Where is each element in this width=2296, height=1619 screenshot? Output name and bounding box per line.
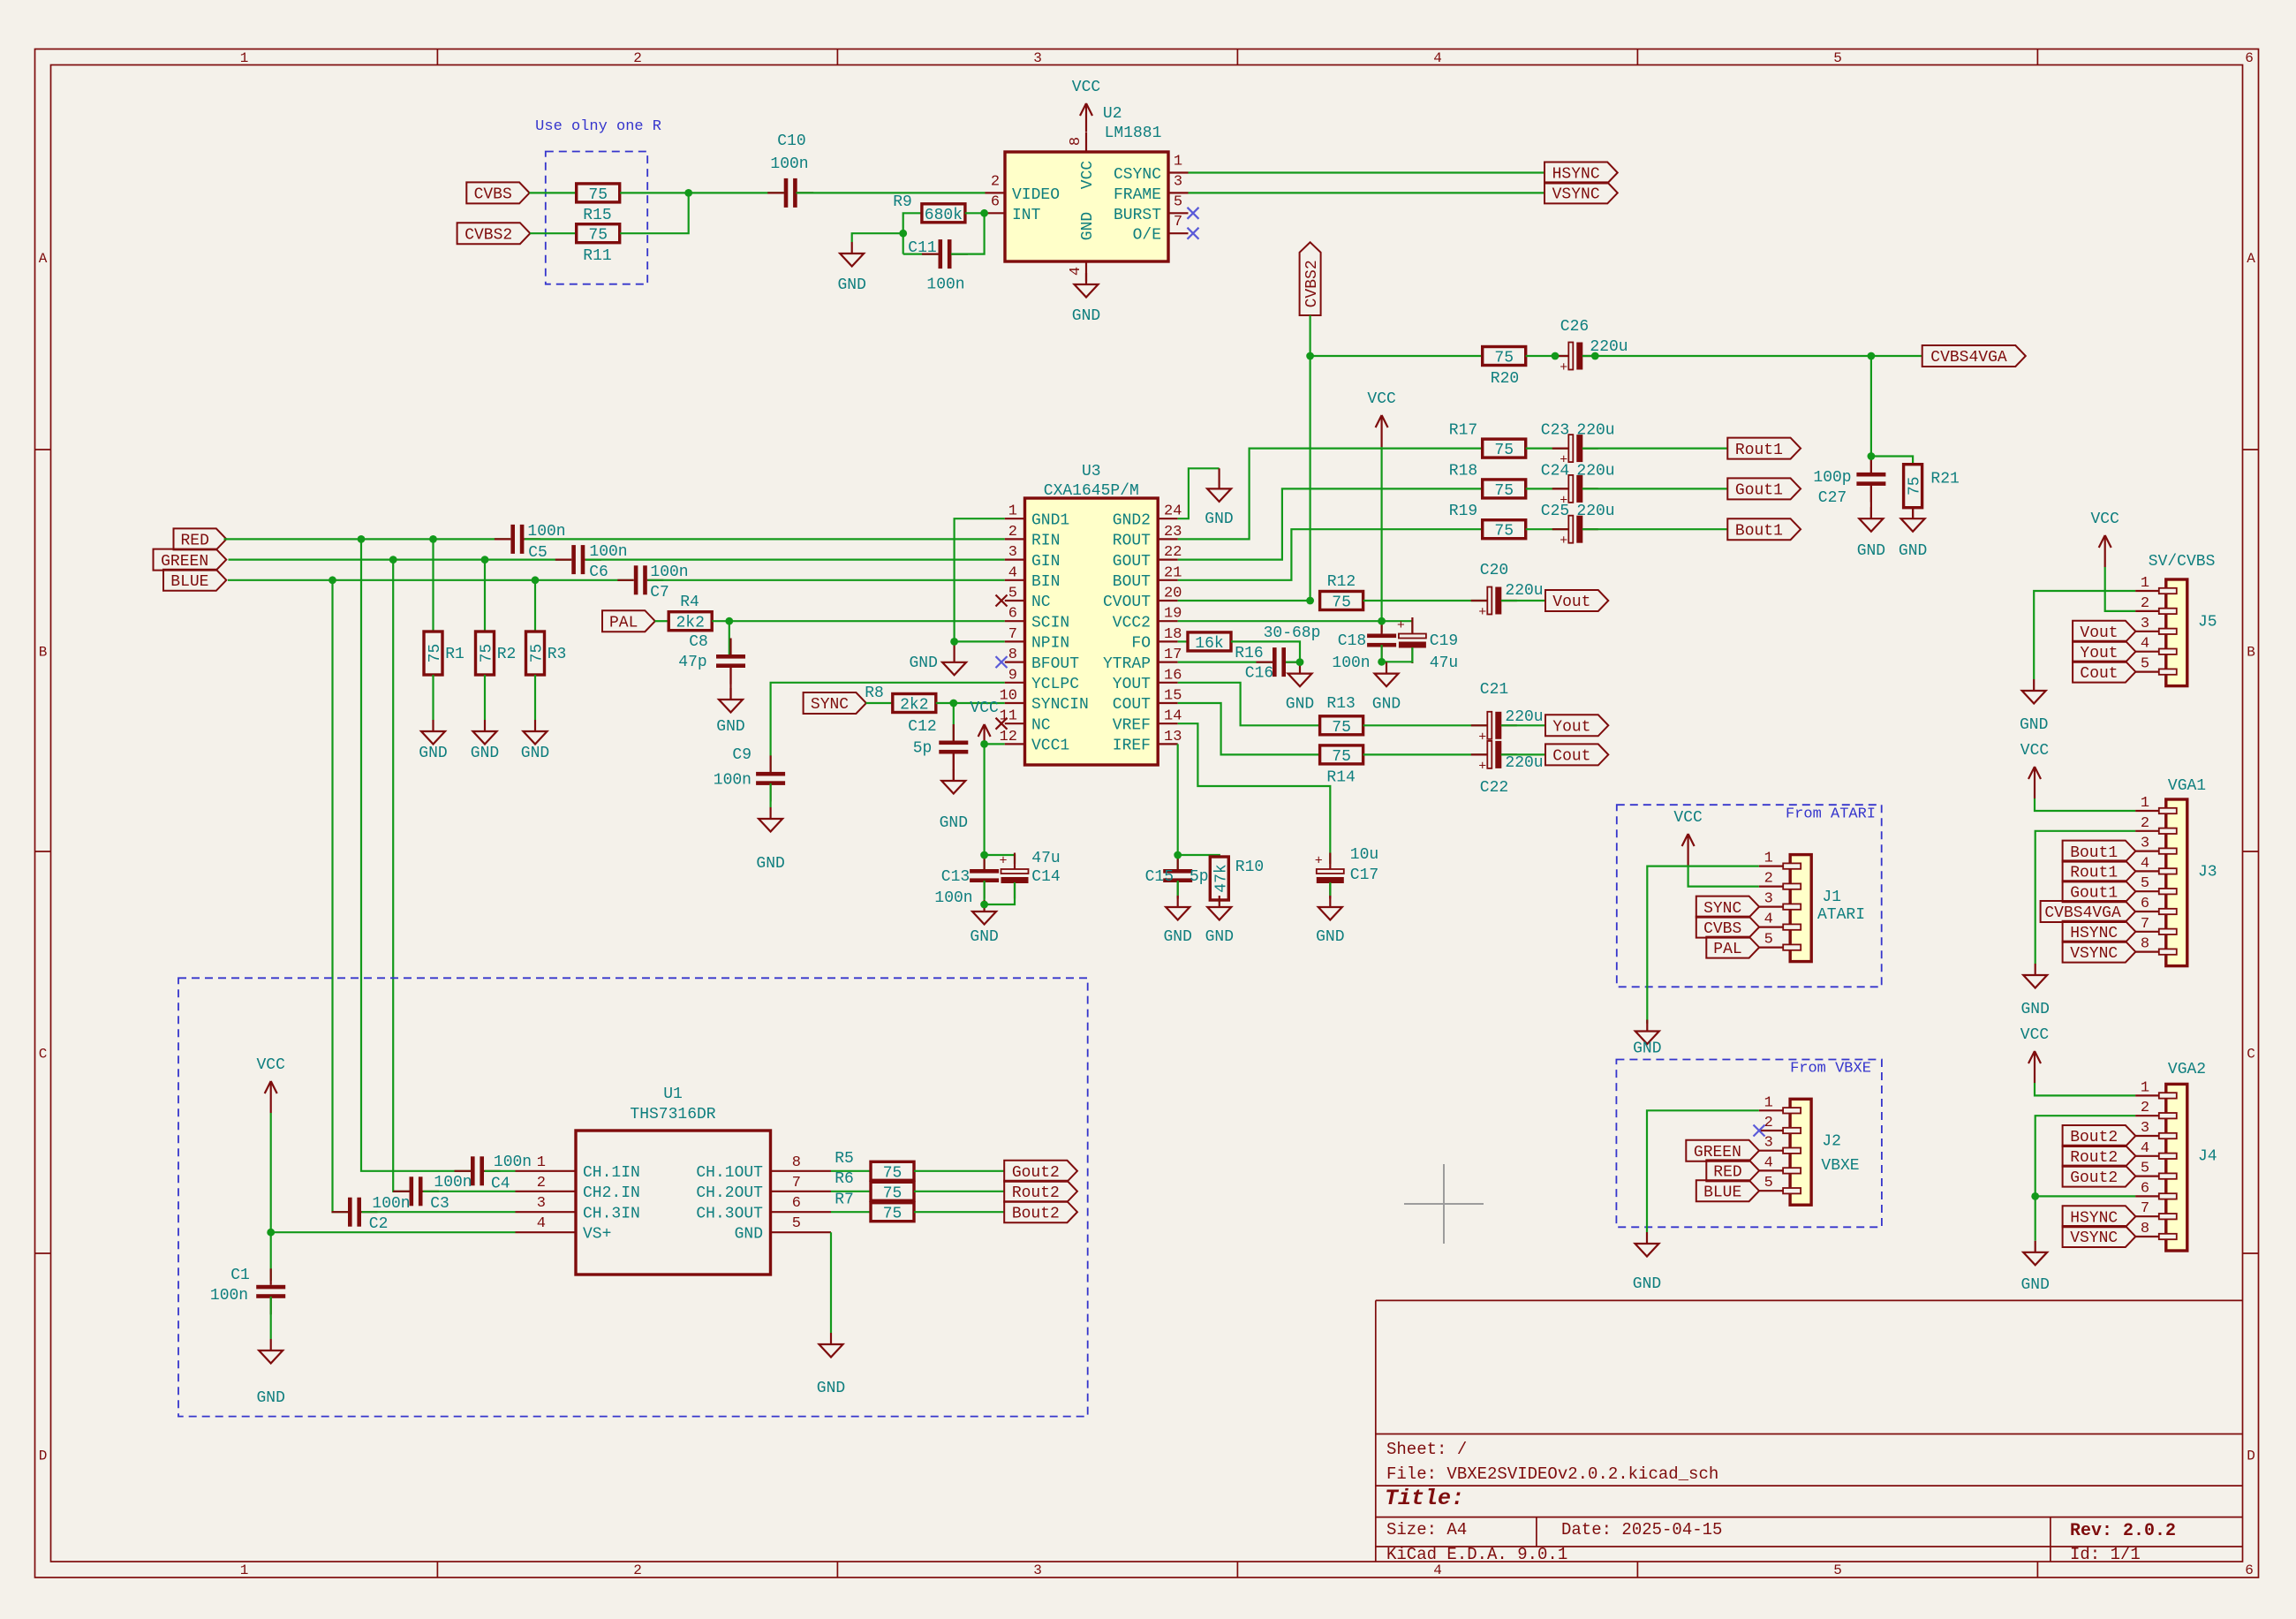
svg-text:Bout2: Bout2 [2070, 1129, 2118, 1146]
resistor R10 [1210, 857, 1264, 900]
polarized capacitor C23 [1541, 422, 1615, 468]
svg-text:LM1881: LM1881 [1105, 125, 1162, 142]
svg-text:1: 1 [2141, 575, 2149, 592]
global label HSYNC to J4 [2063, 1206, 2136, 1227]
svg-text:+: + [1315, 854, 1323, 869]
svg-text:C10: C10 [777, 132, 805, 150]
svg-text:Sheet: /: Sheet: / [1386, 1440, 1467, 1459]
svg-text:GND: GND [716, 718, 744, 736]
svg-text:24: 24 [1164, 503, 1182, 520]
svg-text:FO: FO [1131, 635, 1151, 653]
svg-text:CH2.IN: CH2.IN [583, 1184, 640, 1202]
wire GOUT riser [1178, 488, 1483, 559]
svg-text:9: 9 [1008, 667, 1017, 684]
svg-text:C2: C2 [369, 1215, 389, 1233]
U1 pin 8 CH.1OUT [696, 1154, 831, 1182]
junction C8 tap [725, 617, 733, 625]
resistor R7 [835, 1191, 914, 1222]
svg-text:20: 20 [1164, 586, 1182, 602]
global label BLUE [163, 570, 226, 591]
svg-text:6: 6 [2245, 50, 2254, 66]
svg-text:R1: R1 [445, 646, 464, 663]
dashed box around U1 section [178, 978, 1088, 1416]
global label CVBS to J1 [1696, 917, 1759, 938]
svg-text:1: 1 [1174, 154, 1182, 170]
wire R2 drop [484, 560, 486, 632]
U3 pin 20 CVOUT [1103, 586, 1182, 612]
U3 pin 2 RIN [1005, 524, 1061, 550]
ground R2 gnd [471, 720, 499, 762]
svg-text:GND: GND [1633, 1275, 1661, 1293]
global label Bout2 [1004, 1201, 1077, 1222]
capacitor C27 [1813, 456, 1885, 507]
svg-text:100n: 100n [434, 1174, 472, 1192]
ground C17 gnd [1316, 896, 1344, 946]
capacitor C15 [1145, 853, 1209, 899]
global label Cout [1545, 744, 1608, 765]
svg-text:Yout: Yout [1552, 719, 1590, 737]
svg-text:100n: 100n [770, 155, 808, 173]
svg-text:6: 6 [2141, 896, 2149, 912]
U3 pin 3 GIN [1005, 544, 1061, 571]
wire R2 to gnd [484, 675, 486, 720]
svg-text:47u: 47u [1430, 654, 1458, 672]
svg-text:2: 2 [2141, 1100, 2149, 1116]
svg-text:CXA1645P/M: CXA1645P/M [1044, 482, 1139, 500]
wire IREF wire [1177, 744, 1179, 855]
svg-text:R6: R6 [835, 1170, 854, 1188]
U1 pin 6 CH.3OUT [696, 1195, 831, 1222]
svg-text:J5: J5 [2198, 613, 2217, 631]
svg-text:2k2: 2k2 [900, 697, 928, 715]
wire C11 left [903, 253, 939, 255]
svg-text:GND: GND [1163, 928, 1191, 946]
wire C12 drop [953, 703, 955, 741]
svg-text:GND: GND [1079, 212, 1097, 240]
global label Yout to J5 [2073, 641, 2135, 662]
junction C15/R10 node [1174, 851, 1182, 859]
svg-text:2: 2 [2141, 595, 2149, 612]
svg-text:GND: GND [471, 745, 499, 762]
svg-text:3: 3 [2141, 1120, 2149, 1137]
no-connect J2 pin2 [1754, 1125, 1765, 1137]
wire R9 left drop [903, 213, 922, 253]
svg-text:1: 1 [1764, 1094, 1773, 1111]
junction C12 tap [949, 700, 957, 707]
junction NPIN gnd node [950, 638, 958, 646]
junction BLUE R3 tap [532, 576, 540, 584]
junction RED R1 tap [429, 535, 437, 543]
no-connect U3 pin11 [996, 718, 1008, 730]
wire C15 drop [1177, 855, 1179, 869]
wire R18 to C24 [1526, 488, 1569, 489]
svg-text:CSYNC: CSYNC [1114, 166, 1161, 184]
C8 gnd stub [729, 665, 731, 700]
ground C8 gnd [716, 688, 744, 736]
U2 pin 7 O/E [1133, 214, 1189, 245]
global label Vout to J5 [2073, 621, 2135, 642]
svg-text:GND: GND [817, 1380, 845, 1397]
dashed box From ATARI [1617, 805, 1882, 987]
wire node A to C10 [689, 192, 785, 193]
wire BOUT riser [1178, 529, 1483, 580]
svg-text:VCC: VCC [970, 700, 999, 717]
capacitor C7 [617, 564, 688, 601]
svg-text:3: 3 [2141, 836, 2149, 852]
svg-text:5p: 5p [913, 739, 933, 757]
svg-text:R11: R11 [583, 247, 611, 265]
svg-text:VCC1: VCC1 [1031, 738, 1069, 755]
resistor R16 [1188, 632, 1231, 653]
svg-text:VSYNC: VSYNC [2070, 945, 2118, 963]
wire gnd branch [852, 233, 903, 242]
svg-text:GND: GND [2020, 1276, 2049, 1294]
svg-text:Bout1: Bout1 [2070, 844, 2118, 862]
junction BLUE drop [329, 576, 336, 584]
svg-text:GND: GND [256, 1389, 284, 1407]
svg-text:C8: C8 [689, 633, 708, 651]
svg-text:Gout2: Gout2 [2070, 1169, 2118, 1187]
wire R10 to gnd [1219, 900, 1220, 903]
wire VCC to J4 pin1 [2035, 1083, 2135, 1095]
U1 pin 3 CH.3IN [516, 1195, 640, 1222]
resistor R5 [835, 1150, 914, 1182]
wire R15 to node A [620, 192, 689, 193]
wire CVBS2 to R11 [530, 232, 576, 234]
wire VCC2 wire [1178, 620, 1382, 622]
wire R11 to node A [620, 193, 689, 233]
svg-text:VCC2: VCC2 [1113, 614, 1151, 632]
wire C25 to Bout1 [1582, 528, 1728, 530]
U3 pin 18 FO [1131, 626, 1182, 653]
svg-text:4: 4 [2141, 1140, 2149, 1157]
wire PAL to R4 [655, 620, 669, 622]
capacitor C4 [455, 1154, 532, 1193]
global label SYNC to J1 [1696, 897, 1759, 918]
svg-text:J2: J2 [1822, 1132, 1841, 1150]
wire C17 to gnd [1329, 882, 1331, 896]
svg-text:6: 6 [2141, 1180, 2149, 1197]
svg-text:BLUE: BLUE [1703, 1184, 1741, 1201]
resistor R1 [424, 632, 464, 675]
wire C1 to gnd [270, 1297, 272, 1339]
svg-text:2: 2 [633, 50, 642, 66]
svg-text:C6: C6 [589, 564, 608, 581]
svg-text:1: 1 [240, 50, 249, 66]
svg-text:75: 75 [1494, 442, 1514, 459]
power VCC VCC near C18 [1367, 390, 1396, 447]
wire VCC to J3 pin1 [2035, 798, 2135, 811]
wire R8 to SYNCIN [936, 702, 1005, 704]
junction CVBS4VGA node [1306, 352, 1314, 360]
svg-text:2: 2 [1764, 1115, 1773, 1131]
U1 pin 7 CH.2OUT [696, 1175, 831, 1202]
resistor R14 [1320, 745, 1363, 787]
svg-text:D: D [2247, 1449, 2255, 1464]
svg-text:R14: R14 [1326, 769, 1355, 787]
svg-text:R18: R18 [1449, 462, 1477, 480]
wire R20 to C26 [1526, 355, 1569, 357]
resistor R12 [1320, 573, 1363, 612]
svg-text:Bout1: Bout1 [1735, 522, 1783, 540]
svg-text:GREEN: GREEN [1694, 1144, 1741, 1161]
svg-text:GND: GND [1205, 511, 1233, 528]
svg-text:SCIN: SCIN [1031, 614, 1069, 632]
junction C13/C14 top node [980, 851, 988, 859]
svg-text:SV/CVBS: SV/CVBS [2149, 553, 2216, 571]
IC U3 CXA1645P/M body [1025, 463, 1159, 765]
wire J5 pin1 gnd [2034, 591, 2135, 679]
ground J5 gnd [2020, 679, 2048, 734]
title block texts [1385, 1440, 2176, 1564]
power VCC VCC J4 [2020, 1026, 2050, 1083]
svg-text:HSYNC: HSYNC [2070, 925, 2118, 942]
global label CVBS2 drop [1300, 242, 1321, 315]
svg-text:1: 1 [2141, 1079, 2149, 1096]
svg-text:GND: GND [1857, 542, 1885, 560]
svg-text:75: 75 [1494, 523, 1514, 541]
svg-text:RIN: RIN [1031, 533, 1060, 550]
wire VCC to J5 pin2 [2105, 567, 2135, 611]
svg-text:75: 75 [588, 227, 608, 245]
svg-text:2k2: 2k2 [676, 615, 704, 632]
power VCC VCC near U3 pin12 [970, 700, 999, 745]
global label VSYNC top [1545, 182, 1618, 203]
ground R1 gnd [419, 720, 447, 762]
svg-text:Use olny one R: Use olny one R [535, 118, 661, 135]
wire GND2 wire [1178, 468, 1220, 518]
svg-text:PAL: PAL [1713, 941, 1741, 958]
global label Gout2 to J4 [2063, 1166, 2136, 1187]
svg-text:220u: 220u [1505, 708, 1543, 726]
wire to R21 [1871, 457, 1913, 465]
global label Vout [1545, 590, 1608, 611]
svg-text:CVOUT: CVOUT [1103, 594, 1151, 611]
wire C16 to node [1286, 661, 1300, 662]
svg-text:VIDEO: VIDEO [1012, 186, 1060, 204]
wire FO wire [1178, 640, 1188, 642]
wire NPIN wire [955, 640, 1005, 642]
global label Bout1 [1727, 518, 1801, 540]
svg-text:C21: C21 [1480, 681, 1508, 699]
svg-text:SYNC: SYNC [811, 696, 849, 714]
polarized capacitor C25 [1541, 503, 1615, 548]
svg-text:SYNC: SYNC [1703, 900, 1741, 918]
svg-text:2: 2 [633, 1562, 642, 1578]
wire C20 to Vout [1501, 600, 1545, 601]
svg-text:100n: 100n [714, 772, 751, 790]
wire C2 to pin3 [362, 1211, 516, 1213]
svg-text:KiCad E.D.A. 9.0.1: KiCad E.D.A. 9.0.1 [1386, 1545, 1567, 1564]
svg-text:CVBS4VGA: CVBS4VGA [1930, 349, 2007, 367]
global label BLUE to J2 [1696, 1180, 1759, 1201]
resistor R17 [1449, 422, 1526, 459]
svg-text:13: 13 [1164, 729, 1182, 745]
capacitor C18 [1332, 617, 1396, 672]
svg-text:NC: NC [1031, 716, 1051, 734]
wire C3 to pin2 [423, 1191, 515, 1192]
svg-text:VGA2: VGA2 [2168, 1061, 2206, 1078]
junction node B [980, 209, 988, 217]
svg-text:File: VBXE2SVIDEOv2.0.2.kicad_: File: VBXE2SVIDEOv2.0.2.kicad_sch [1386, 1464, 1718, 1484]
svg-text:Gout1: Gout1 [1735, 482, 1783, 500]
svg-text:220u: 220u [1505, 754, 1543, 772]
svg-text:NPIN: NPIN [1031, 635, 1069, 653]
wire pin8 to R5 [831, 1170, 871, 1172]
ground R21 gnd [1899, 507, 1927, 560]
wire C21 to Yout [1501, 724, 1545, 726]
wire VCC1 wire [985, 743, 1005, 745]
U3 pin 19 VCC2 [1113, 606, 1182, 632]
connector J5 SV/CVBS [2135, 575, 2217, 686]
svg-text:FRAME: FRAME [1114, 186, 1161, 204]
svg-text:+: + [1478, 759, 1486, 774]
svg-text:C26: C26 [1560, 318, 1589, 336]
resistor R21 [1904, 465, 1960, 508]
svg-text:GND: GND [837, 276, 865, 294]
junction GREEN R2 tap [481, 556, 489, 564]
wire R17 to C23 [1526, 448, 1569, 450]
global label RED [174, 528, 227, 549]
ground C18 gnd [1372, 662, 1401, 714]
polarized capacitor C14 [999, 850, 1060, 899]
connector J2 VBXE [1759, 1094, 1841, 1205]
U3 pin 5 NC [1005, 586, 1051, 612]
op-amp U2 LM1881 body [1005, 105, 1168, 261]
wire to C14 top [985, 855, 1015, 864]
svg-text:R5: R5 [835, 1150, 854, 1168]
junction C27/R21 node [1868, 452, 1876, 460]
connector J4 VGA2 [2135, 1079, 2217, 1251]
svg-text:R15: R15 [583, 207, 611, 224]
svg-text:From VBXE: From VBXE [1790, 1061, 1871, 1078]
svg-text:75: 75 [883, 1184, 903, 1202]
ground C15 gnd [1163, 896, 1191, 946]
svg-text:1: 1 [537, 1154, 546, 1171]
svg-text:GND: GND [1372, 696, 1401, 714]
C27 gnd stub [1870, 484, 1872, 518]
connector J1 ATARI [1759, 851, 1841, 962]
global label Yout [1545, 715, 1608, 736]
U2 pin 6 INT [985, 193, 1041, 224]
svg-text:ROUT: ROUT [1113, 533, 1151, 550]
svg-text:Rout2: Rout2 [1012, 1184, 1060, 1202]
svg-text:VCC: VCC [2020, 1026, 2050, 1044]
polarized capacitor C17 [1315, 846, 1378, 899]
svg-text:5: 5 [2141, 656, 2149, 673]
wire GREEN row [229, 558, 571, 560]
svg-text:VCC: VCC [1079, 161, 1097, 190]
junction C1 node [267, 1229, 275, 1237]
wire C4 to pin1 [485, 1170, 516, 1172]
wire SYNC to R8 [866, 702, 893, 704]
svg-text:C25: C25 [1541, 503, 1569, 520]
svg-text:C27: C27 [1818, 489, 1847, 507]
global label CVBS4VGA to J3 [2041, 901, 2136, 922]
svg-text:+: + [1560, 533, 1567, 548]
svg-text:C12: C12 [908, 718, 936, 736]
U3 pin 21 BOUT [1113, 564, 1182, 591]
polarized capacitor C26 [1552, 318, 1628, 375]
svg-text:+: + [1478, 605, 1486, 620]
U2 pin 2 VIDEO [986, 173, 1061, 204]
svg-text:GND: GND [1286, 696, 1314, 714]
wire C18 bottom [1380, 645, 1382, 662]
svg-text:100n: 100n [372, 1195, 410, 1213]
svg-text:2: 2 [537, 1175, 546, 1192]
polarized capacitor C19 [1397, 617, 1458, 672]
U1 pin 4 VS+ [516, 1215, 612, 1243]
svg-text:100n: 100n [589, 543, 627, 561]
dashed note box around R15/R11 [546, 152, 647, 284]
global label Gout2 [1004, 1161, 1077, 1182]
junction C26 right [1591, 352, 1599, 360]
capacitor C6 [555, 543, 628, 581]
wire C18 drop [1380, 621, 1382, 632]
svg-text:VCC: VCC [2020, 742, 2050, 760]
svg-text:6: 6 [1008, 606, 1017, 623]
U3 pin 9 YCLPC [1005, 667, 1079, 693]
svg-text:C20: C20 [1480, 562, 1508, 579]
ground R3 gnd [521, 720, 549, 762]
capacitor C2 [332, 1195, 411, 1233]
global label VSYNC to J4 [2063, 1226, 2136, 1247]
svg-text:J1: J1 [1822, 889, 1841, 906]
svg-text:CH.1IN: CH.1IN [583, 1164, 640, 1182]
svg-text:CVBS2: CVBS2 [1303, 260, 1321, 307]
svg-text:6: 6 [2245, 1562, 2254, 1578]
svg-text:6: 6 [792, 1195, 801, 1212]
svg-text:U1: U1 [663, 1086, 683, 1103]
svg-text:23: 23 [1164, 524, 1182, 541]
svg-text:Gout2: Gout2 [1012, 1164, 1060, 1182]
svg-text:VREF: VREF [1113, 716, 1151, 734]
power VCC U2 VCC [1072, 79, 1101, 132]
svg-text:Vout: Vout [1552, 594, 1590, 611]
polarized capacitor C20 [1471, 562, 1544, 620]
svg-text:B: B [39, 645, 48, 661]
U1 pin 1 CH.1IN [516, 1154, 640, 1182]
wire R6 to Rout2 [914, 1191, 1004, 1192]
wire C19 bottom [1382, 647, 1413, 662]
svg-text:18: 18 [1164, 626, 1182, 643]
svg-text:3: 3 [1174, 173, 1182, 190]
U3 pin 23 ROUT [1113, 524, 1182, 550]
svg-text:75: 75 [1494, 350, 1514, 367]
svg-text:75: 75 [427, 644, 444, 663]
global label GREEN [154, 549, 227, 571]
svg-text:VBXE: VBXE [1821, 1157, 1859, 1175]
svg-text:GND: GND [1072, 307, 1100, 325]
svg-text:O/E: O/E [1133, 227, 1161, 245]
svg-text:CH.3IN: CH.3IN [583, 1205, 640, 1222]
svg-text:220u: 220u [1505, 582, 1543, 600]
svg-text:8: 8 [2141, 1221, 2149, 1237]
global label HSYNC top [1545, 163, 1618, 184]
svg-text:Rout2: Rout2 [2070, 1149, 2118, 1167]
wire YOUT wire [1178, 683, 1320, 726]
global label Gout1 to J3 [2063, 881, 2136, 902]
U2 pin 4 GND bottom [1068, 212, 1097, 282]
svg-text:15: 15 [1164, 688, 1182, 705]
svg-text:3: 3 [1764, 891, 1773, 908]
svg-text:R9: R9 [893, 193, 912, 211]
wire CVBS2 vertical [1309, 315, 1310, 601]
svg-text:100n: 100n [934, 889, 972, 907]
global label SYNC [804, 692, 866, 714]
svg-text:GND: GND [1633, 1040, 1661, 1058]
svg-text:5: 5 [1764, 932, 1773, 949]
